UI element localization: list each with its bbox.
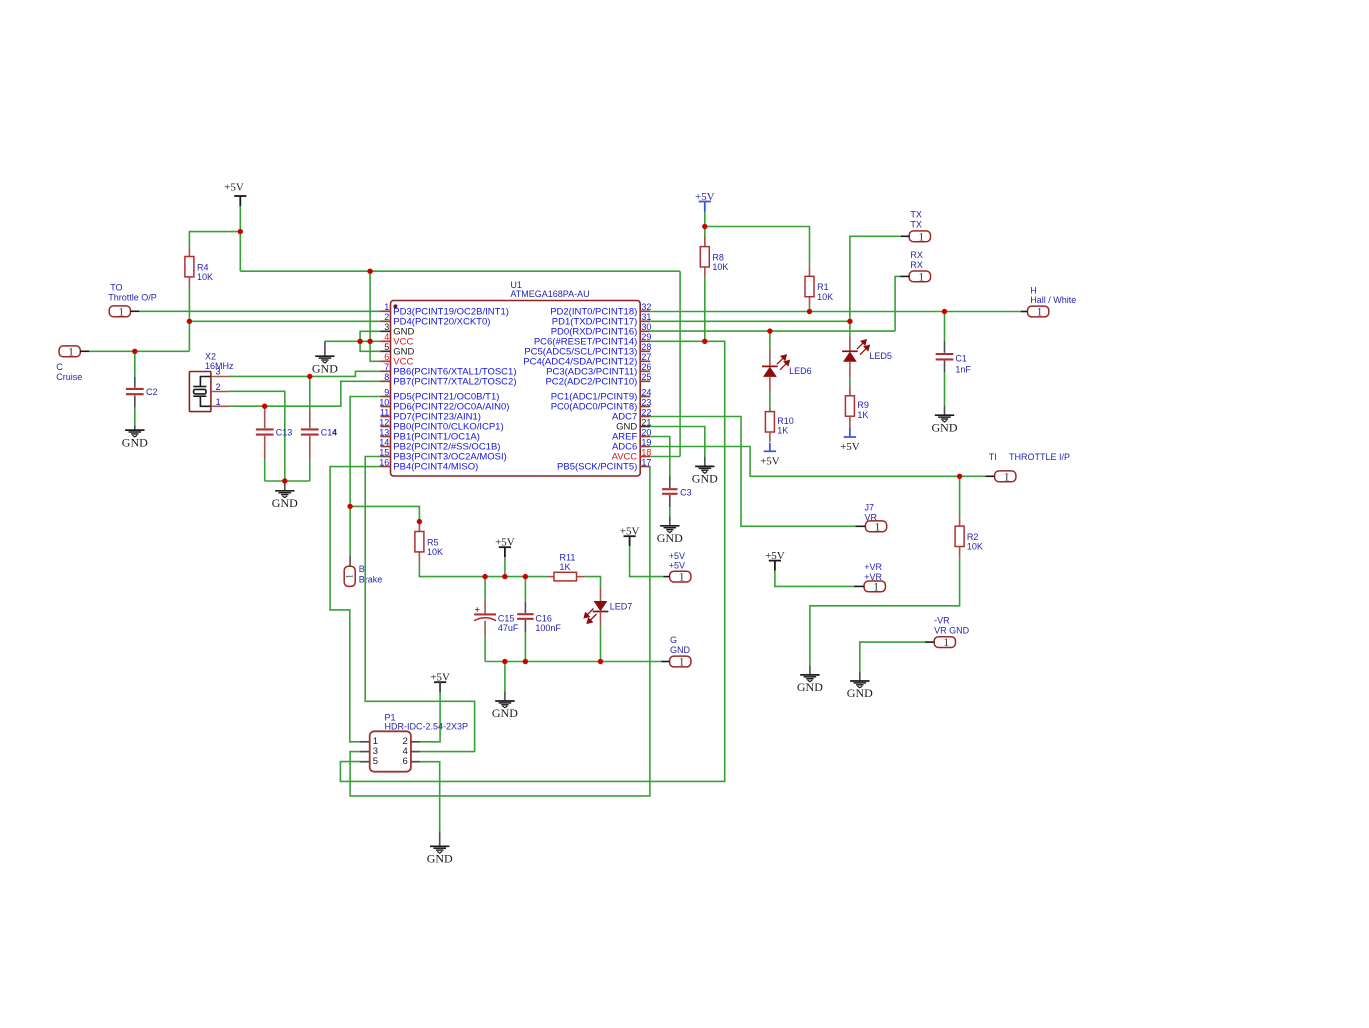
IC U1 pin 14 PB2(PCINT2/#SS/OC1B) [381,446,391,448]
svg-text:29: 29 [641,332,651,342]
capacitor C13 [264,406,266,409]
wire pin 4 row to GND symbol column [325,340,381,342]
wire -VR to ground [860,642,925,672]
ground GND (R2) [809,665,811,675]
svg-text:1K: 1K [857,410,868,420]
wire R11 to LED7 [585,577,600,588]
junction throttle/R2 [957,474,962,479]
IC U1 pin 20 AREF [640,436,650,438]
svg-text:RX: RX [910,250,923,260]
svg-text:21: 21 [641,417,651,427]
svg-text:+5V: +5V [695,191,715,203]
svg-text:1: 1 [918,270,924,284]
wire LED5 to R9 [849,378,851,385]
crystal X2 pin 3 [211,376,230,378]
svg-text:10K: 10K [197,272,213,282]
capacitor C14 [309,376,311,409]
svg-text:26: 26 [641,362,651,372]
junction VCC drop / pin4 row [367,339,372,344]
svg-text:32: 32 [641,302,651,312]
wire TX link [850,236,901,321]
svg-text:1: 1 [384,302,389,312]
svg-text:30: 30 [641,322,651,332]
svg-text:J7: J7 [865,503,875,513]
svg-text:Cruise: Cruise [56,372,82,382]
svg-text:15: 15 [379,447,389,457]
IC U1 pin 2 PD4(PCINT20/XCKT0) [381,320,391,322]
svg-text:LED7: LED7 [610,602,633,612]
svg-text:B: B [359,564,365,574]
wire X2 pin3 to IC pin 7 XTAL1 [230,371,381,376]
svg-text:28: 28 [641,342,651,352]
ground GND (C2) [134,425,136,430]
svg-text:1: 1 [873,580,879,594]
svg-text:R2: R2 [967,532,979,542]
svg-text:1K: 1K [777,426,788,436]
resistor R11 1K (horizontal) [547,576,554,578]
LED LED5 [849,321,851,335]
power flag +5V (below R10) [764,450,776,452]
svg-text:10K: 10K [712,262,728,272]
svg-text:+5V: +5V [765,550,785,562]
svg-text:6: 6 [403,756,408,767]
svg-text:7: 7 [384,362,389,372]
junction brake / R5 [347,504,352,509]
wire LED7 to gnd rail [600,627,602,662]
svg-text:TI: TI [989,452,997,462]
wire RX link [895,276,900,331]
wire R5 bottom to +5V rail [419,562,547,577]
ground GND (-VR) [859,672,861,681]
IC U1 pin 5 GND [381,350,391,352]
P1 pin 6 [411,761,420,763]
junction R5 top [417,519,422,524]
svg-text:PB4(PCINT4/MISO): PB4(PCINT4/MISO) [393,462,478,473]
capacitor C1 1nF [944,312,946,342]
svg-text:20: 20 [641,427,651,437]
svg-text:9: 9 [384,387,389,397]
P1 pin 1 [360,741,370,743]
power flag +5V (above ICSP) [434,681,446,683]
IC U1 pin 8 PB7(PCINT7/XTAL2/TOSC2) [381,380,391,382]
wire PD4 row (pin 2) [189,320,380,322]
wire +5V rail horizontal to AVCC column [240,270,680,272]
LED LED6 [769,331,771,348]
svg-text:H: H [1030,285,1037,295]
connector B Brake [344,566,355,586]
wire PD2 row (pin 32) to Hall port [650,311,1021,313]
svg-text:19: 19 [641,437,651,447]
svg-text:+: + [475,605,480,615]
IC U1 pin 32 PD2(INT0/PCINT18) [640,310,650,312]
svg-text:1: 1 [943,635,949,649]
ground GND (ICSP) [439,832,441,847]
junction R8/R1 top [702,224,707,229]
svg-text:1K: 1K [560,562,571,572]
junction C16 top [523,574,528,579]
wire +5V flag to +5V port [630,546,664,576]
junction GND bracket / pin4 row [357,339,362,344]
wire R1 bottom to PD2 row [809,307,811,312]
power flag +5V (above R8) [699,201,711,203]
IC U1 pin 12 PB0(PCINT0/CLKO/ICP1) [381,426,391,428]
svg-text:GND: GND [847,686,873,700]
ground GND (C15/C16 rail) [504,662,506,692]
junction +5V rail [238,229,243,234]
svg-text:31: 31 [641,312,651,322]
svg-text:GND: GND [692,472,718,486]
ground GND (crystal caps) [284,481,286,491]
svg-text:5: 5 [384,342,389,352]
wire MOSI pin 15 to ICSP pin 4 [365,457,474,752]
wire TO port to pin 1 (PD3) [139,310,380,312]
svg-text:R4: R4 [197,262,209,272]
capacitor C3 [669,477,671,489]
IC U1 pin 3 GND [381,330,391,332]
wire X2 pin1 to IC pin 8 XTAL2 [230,381,381,406]
svg-text:TO: TO [110,283,122,293]
svg-text:+5V: +5V [430,672,450,684]
wire R8 bottom to RESET row [704,277,706,341]
svg-text:+5V: +5V [224,182,244,194]
svg-text:R9: R9 [857,400,869,410]
P1 pin 3 [360,751,370,753]
ground GND (C1) [944,406,946,416]
svg-text:25: 25 [641,372,651,382]
IC U1 pin 15 PB3(PCINT3/OC2A/MOSI) [381,456,391,458]
svg-text:GND: GND [797,680,823,694]
svg-text:1: 1 [1004,469,1010,483]
svg-text:2: 2 [216,382,221,392]
IC U1 pin 30 PD0(RXD/PCINT16) [640,330,650,332]
svg-text:GND: GND [492,706,518,720]
wire PD1 row (pin 31) [650,320,850,322]
svg-text:10K: 10K [967,542,983,552]
svg-text:C3: C3 [680,488,692,498]
junction VCC drop on +5V rail [367,269,372,274]
svg-text:13: 13 [379,427,389,437]
resistor R9 1K [849,386,851,396]
crystal X2 pin 1 [211,405,230,407]
svg-text:R1: R1 [817,282,829,292]
junction C1 [942,309,947,314]
svg-text:27: 27 [641,352,651,362]
svg-text:10K: 10K [427,547,443,557]
wire +5V to R8 junction [704,212,706,227]
svg-text:47uF: 47uF [498,623,519,633]
wire RESET to ICSP pin 5 [340,341,724,781]
wire ADC7 (pin 22) to J7 [650,417,855,527]
wire PD0 row (pin 30) [650,330,895,332]
svg-text:C16: C16 [535,613,552,623]
svg-text:-VR: -VR [934,616,950,626]
svg-text:24: 24 [641,387,651,397]
wire GND bracket pins 3-5 [360,331,380,351]
junction LED6 [767,328,772,333]
ground GND (C3) [669,516,671,526]
svg-text:GND: GND [122,435,148,449]
svg-text:11: 11 [380,407,389,417]
IC U1 pin 6 VCC [381,360,391,362]
IC U1 pin 25 PC2(ADC2/PCINT10) [640,380,650,382]
svg-text:RX: RX [910,260,923,270]
svg-text:1: 1 [679,655,685,669]
svg-text:100nF: 100nF [535,623,561,633]
svg-text:18: 18 [641,447,651,457]
svg-text:G: G [670,635,677,645]
svg-text:TX: TX [910,219,922,229]
resistor R5 10K [418,522,420,532]
svg-text:1: 1 [918,229,924,243]
svg-text:TX: TX [910,210,922,220]
IC U1 pin 13 PB1(PCINT1/OC1A) [381,436,391,438]
junction R4/PD4 [187,319,192,324]
IC U1 pin 27 PC4(ADC4/SDA/PCINT12) [640,360,650,362]
wire LED6 to R10 [769,392,771,408]
svg-text:23: 23 [641,397,651,407]
wire +5V rail down [239,232,241,272]
wire +5V to rail [504,557,506,576]
svg-text:Throttle O/P: Throttle O/P [108,293,157,303]
LED LED7 [600,588,602,602]
svg-text:GND: GND [657,531,683,545]
wire pin 9 to brake column [350,397,380,507]
svg-text:1: 1 [874,519,880,533]
P1 pin 4 [411,751,420,753]
svg-text:X2: X2 [205,351,216,361]
svg-text:LED5: LED5 [869,351,892,361]
junction R1/PD2 [807,309,812,314]
svg-text:C15: C15 [498,613,515,623]
IC U1 pin 19 ADC6 [640,446,650,448]
wire MISO pin 16 to ICSP pin 1 [330,467,380,742]
svg-text:GND: GND [427,852,453,866]
wire top link to R1 [705,227,810,267]
junction gnd rail LED7 [598,659,603,664]
IC U1 pin 16 PB4(PCINT4/MISO) [381,466,391,468]
wire junction to R4 top [189,232,240,247]
wire +5V to ICSP pin 2 [439,682,441,691]
wire +5V down to junction [239,206,241,232]
svg-text:3: 3 [384,322,389,332]
svg-text:PB7(PCINT7/XTAL2/TOSC2): PB7(PCINT7/XTAL2/TOSC2) [393,377,516,388]
IC U1 pin 18 AVCC [640,456,650,458]
wire brake column down [349,506,351,555]
svg-text:1nF: 1nF [955,365,971,375]
wire AVCC vertical [679,271,681,456]
svg-text:THROTTLE I/P: THROTTLE I/P [1009,452,1070,462]
svg-text:22: 22 [641,407,651,417]
wire R2 bottom to ground [810,557,960,665]
IC U1 pin 29 PC6(#RESET/PCINT14) [640,340,650,342]
power flag +5V (below R9) [844,436,856,438]
svg-text:8: 8 [384,372,389,382]
wire junction down to Cruise row [188,321,190,351]
svg-text:R10: R10 [777,416,794,426]
svg-text:C1: C1 [955,354,967,364]
IC U1 pin 7 PB6(PCINT6/XTAL1/TOSC1) [381,370,391,372]
svg-text:16: 16 [379,457,389,467]
IC U1 pin 21 GND [640,426,650,428]
junction RESET [702,339,707,344]
svg-text:17: 17 [641,457,651,467]
ground GND (IC pin 21) [704,457,706,467]
svg-text:2: 2 [384,312,389,322]
capacitor C16 100nF [524,577,526,602]
svg-text:ATMEGA168PA-AU: ATMEGA168PA-AU [510,289,589,299]
svg-text:4: 4 [332,427,337,437]
wire ADC6 (pin 19) to throttle row [650,447,985,477]
IC U1 pin 17 PB5(SCK/PCINT5) [640,466,650,468]
svg-text:GND: GND [670,645,691,655]
IC U1 pin 28 PC5(ADC5/SCL/PCINT13) [640,350,650,352]
IC U1 pin 24 PC1(ADC1/PCINT9) [640,396,650,398]
svg-text:C13: C13 [276,427,293,437]
power flag +5V (near +VR) [769,560,781,562]
capacitor C2 [134,351,136,376]
wire R5 link [350,506,419,521]
junction X2 pin1 / C13 [262,404,267,409]
IC U1 pin 22 ADC7 [640,416,650,418]
wire R4 bottom to PD4 row junction [188,287,190,322]
svg-text:10K: 10K [817,292,833,302]
svg-text:HDR-IDC-2.54-2X3P: HDR-IDC-2.54-2X3P [385,721,469,731]
svg-text:GND: GND [272,496,298,510]
junction X2 pin3 / C14 [307,374,312,379]
resistor R4 10K [188,247,190,257]
svg-text:1: 1 [346,574,356,579]
junction LED5/TX [847,319,852,324]
wire ICSP pin 6 to ground [420,762,440,832]
svg-text:C2: C2 [146,387,158,397]
wire VCC drop to pin 6 [370,271,380,361]
svg-text:R11: R11 [560,553,576,563]
wire SCK pin 17 to ICSP pin 3 [350,467,650,796]
svg-text:1: 1 [1037,305,1043,319]
svg-text:+5V: +5V [669,551,685,561]
wire GND (pin 21) to ground [650,427,705,457]
wire AREF (pin 20) to C3 [650,437,670,477]
IC U1 pin 1 marker [393,304,397,308]
svg-text:12: 12 [379,417,389,427]
svg-text:PB5(SCK/PCINT5): PB5(SCK/PCINT5) [557,462,637,473]
svg-text:GND: GND [932,420,958,434]
svg-text:1: 1 [118,304,124,318]
resistor R2 10K [959,476,961,517]
IC U1 pin 31 PD1(TXD/PCINT17) [640,320,650,322]
junction +5V rail mid [502,574,507,579]
svg-text:R8: R8 [712,252,724,262]
svg-text:Brake: Brake [359,574,383,584]
wire crystal gnd rail [265,480,310,482]
crystal X2 pin 2 [211,391,230,393]
IC U1 pin 1 PD3(PCINT19/OC2B/INT1) [381,310,391,312]
svg-text:1: 1 [68,344,74,358]
svg-text:GND: GND [312,361,338,375]
resistor R1 10K [809,266,811,276]
junction gnd rail GND stub [502,659,507,664]
wire +5V to +VR port [775,571,854,587]
power flag +5V (top left) [234,195,246,197]
svg-text:10: 10 [379,397,389,407]
wire gnd rail [485,661,661,663]
svg-text:LED6: LED6 [789,366,812,376]
IC U1 pin 11 PD7(PCINT23/AIN1) [381,416,391,418]
IC U1 pin 23 PC0(ADC0/PCINT8) [640,406,650,408]
ground GND (near IC pins 3-5) [324,341,326,356]
svg-text:+VR: +VR [864,562,882,572]
P1 pin 5 [360,761,370,763]
power flag +5V (above C15) [499,546,511,548]
wire X2 pin2 down to gnd rail [230,391,285,481]
IC U1 pin 26 PC3(ADC3/PCINT11) [640,370,650,372]
IC U1 pin 10 PD6(PCINT22/OC0A/AIN0) [381,406,391,408]
wire Cruise row [89,350,189,352]
svg-text:6: 6 [384,352,389,362]
power flag +5V (near +5V port) [624,535,636,537]
svg-text:C: C [56,362,63,372]
svg-text:+5V: +5V [495,537,515,549]
svg-text:4: 4 [384,332,389,342]
svg-text:3: 3 [216,367,221,377]
svg-text:+5V: +5V [760,456,780,468]
wire RESET row (pin 29) [650,340,705,342]
junction C15 top [482,574,487,579]
IC U1 pin 4 VCC [381,340,391,342]
junction gnd rail C16 [523,659,528,664]
svg-text:1: 1 [216,397,221,407]
svg-text:R5: R5 [427,537,439,547]
resistor R10 1K [769,407,771,411]
P1 pin 2 [411,741,420,743]
junction crystal gnd rail [282,478,287,483]
capacitor C15 47uF electrolytic [484,577,486,598]
svg-text:1: 1 [679,570,685,584]
svg-text:+5V: +5V [620,526,640,538]
svg-text:+5V: +5V [840,441,860,453]
svg-text:VR GND: VR GND [934,625,970,635]
junction Cruise/C2 [132,349,137,354]
IC U1 pin 9 PD5(PCINT21/OC0B/T1) [381,396,391,398]
wire AVCC to pin 18 [650,456,680,458]
svg-text:14: 14 [379,437,389,447]
svg-text:5: 5 [373,756,378,767]
svg-text:PC2(ADC2/PCINT10): PC2(ADC2/PCINT10) [545,377,637,388]
resistor R8 10K [704,227,706,247]
